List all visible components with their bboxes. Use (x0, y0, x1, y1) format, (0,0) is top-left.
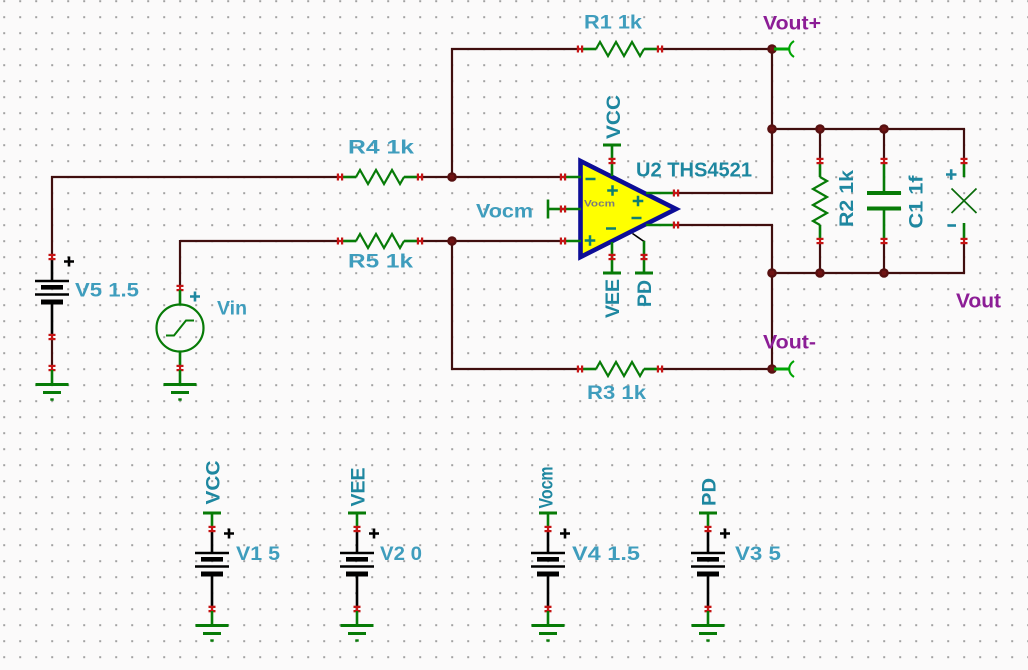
svg-text:VCC: VCC (204, 460, 225, 504)
svg-text:C1 1f: C1 1f (907, 175, 928, 229)
svg-text:V1 5: V1 5 (236, 544, 280, 565)
svg-text:VCC: VCC (604, 95, 625, 139)
svg-text:Vocm: Vocm (584, 199, 615, 209)
svg-text:R5 1k: R5 1k (348, 252, 414, 273)
svg-text:R3 1k: R3 1k (587, 383, 647, 404)
svg-text:V3 5: V3 5 (735, 544, 781, 565)
svg-text:Vocm: Vocm (537, 467, 558, 509)
svg-text:PD: PD (635, 280, 656, 307)
svg-text:R1 1k: R1 1k (584, 13, 642, 34)
svg-text:VEE: VEE (349, 468, 370, 507)
svg-text:Vout: Vout (956, 291, 1001, 313)
svg-text:Vocm: Vocm (476, 202, 533, 223)
svg-text:Vout+: Vout+ (763, 14, 821, 35)
svg-text:U2 THS4521: U2 THS4521 (636, 160, 752, 182)
svg-text:V4 1.5: V4 1.5 (572, 544, 641, 565)
svg-text:VEE: VEE (603, 279, 624, 318)
svg-text:Vout-: Vout- (763, 333, 816, 354)
svg-text:Vin: Vin (217, 299, 247, 320)
svg-text:R2 1k: R2 1k (837, 170, 858, 227)
svg-text:V5 1.5: V5 1.5 (75, 281, 139, 302)
svg-text:PD: PD (700, 478, 721, 506)
svg-text:R4 1k: R4 1k (348, 138, 415, 159)
svg-text:V2 0: V2 0 (380, 544, 422, 565)
